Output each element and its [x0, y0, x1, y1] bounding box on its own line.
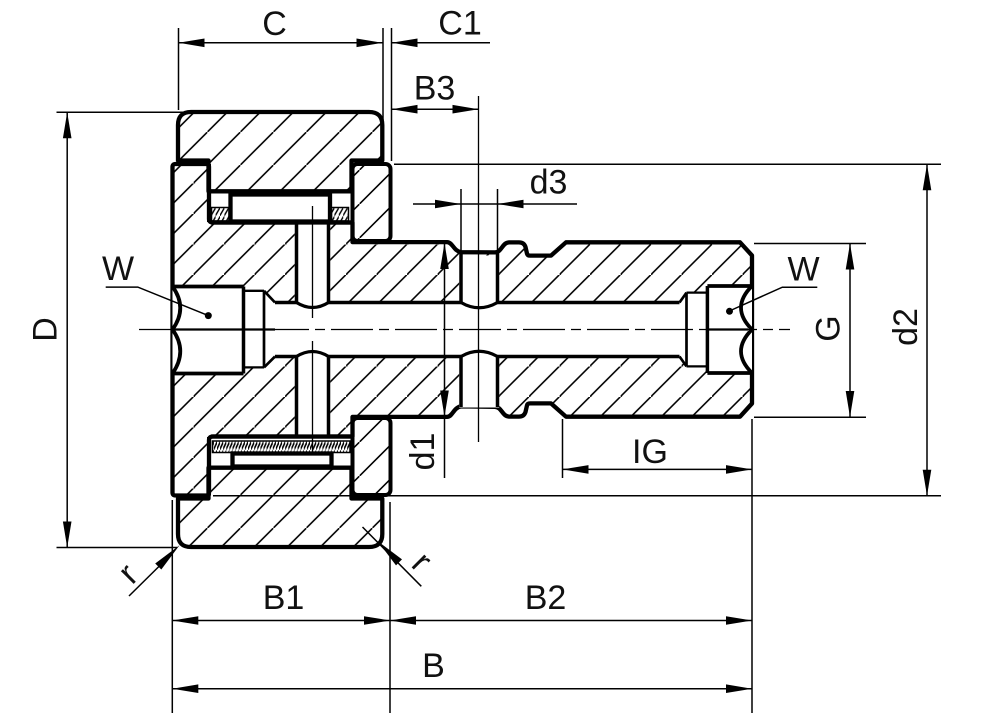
- W right callout: [731, 287, 818, 310]
- cage end block top-left (fine hatch): [212, 208, 230, 222]
- cage pocket bottom (white): [233, 454, 332, 467]
- hex socket left: hex mid edge: [173, 328, 276, 330]
- svg-text:d3: d3: [530, 164, 568, 202]
- svg-text:B: B: [422, 647, 445, 685]
- needle roller top (white): [231, 195, 331, 222]
- dimension C line: [179, 42, 383, 44]
- outer ring bottom section: [178, 468, 382, 547]
- bore bottom line segments: [275, 355, 680, 359]
- dimension D line: [66, 112, 68, 547]
- G arrows: [846, 244, 855, 270]
- dimension B1/B2 line: [172, 620, 752, 622]
- B2 arrows: [390, 616, 416, 625]
- svg-text:B2: B2: [525, 579, 567, 617]
- dimension d2 line: [926, 164, 928, 496]
- svg-text:B3: B3: [414, 70, 456, 108]
- D extension bottom: [57, 547, 178, 549]
- hole 2 walls: [461, 252, 498, 408]
- D extension top: [57, 111, 191, 113]
- dimension C1 line: [392, 42, 491, 44]
- d2 extension bottom: [213, 495, 941, 497]
- bore top line segments: [275, 301, 680, 305]
- svg-text:C1: C1: [438, 5, 481, 43]
- B2/B right extension: [751, 419, 753, 713]
- hole 1 drill break arcs: [297, 303, 329, 357]
- dimension B3 line: [392, 108, 479, 110]
- B1 extension left: [171, 500, 173, 713]
- side plate top: [353, 164, 391, 241]
- hex socket left: drill cone: [264, 291, 275, 368]
- d3 arrows (outside): [435, 200, 461, 209]
- hex socket left: bottom face: [242, 287, 246, 374]
- hole 2 drill break arcs: [461, 303, 498, 357]
- d1 arrows: [440, 243, 449, 269]
- r leader right: [363, 527, 422, 586]
- dimension IG line: [563, 468, 753, 470]
- B arrows: [172, 684, 198, 693]
- hole 1 centerline: [312, 206, 314, 452]
- r leader left: [129, 559, 167, 597]
- B3 arrows: [392, 105, 418, 114]
- outer ring top section: [178, 112, 382, 191]
- svg-text:d1: d1: [404, 433, 442, 471]
- svg-text:C: C: [262, 5, 287, 43]
- hex socket left: edges: [173, 287, 244, 374]
- d2 arrows: [923, 164, 932, 190]
- d2 extension top: [394, 163, 941, 165]
- needle strip bottom (fine hatch): [213, 441, 351, 453]
- hex socket right: drill cone: [680, 293, 687, 367]
- G extension top: [754, 243, 866, 245]
- C extension right: [382, 28, 384, 130]
- side plate bottom: [353, 418, 391, 495]
- hex socket right: pilot band: [687, 293, 708, 367]
- W left callout: [106, 287, 209, 316]
- hex socket left: pilot band: [244, 291, 265, 368]
- IG arrows: [563, 465, 589, 474]
- stud body (hatched section incl. flange and threaded shank): [173, 164, 753, 496]
- lubrication hole 2 (white cutout through stud, thread zone): [459, 256, 499, 304]
- flange right face line: [207, 164, 211, 496]
- lubrication hole 1 (white cutout through stud, bearing zone): [295, 224, 330, 304]
- hex socket right: hex mid edge: [707, 328, 748, 330]
- C extension left: [178, 28, 180, 110]
- dimension d3 line: [413, 203, 577, 205]
- hex socket left: entry chamfer arcs: [173, 287, 181, 374]
- dimension d1 line: [444, 243, 446, 478]
- cage end block top-right (fine hatch): [332, 208, 349, 222]
- C1 extension: [391, 28, 393, 161]
- B1 arrows: [172, 616, 198, 625]
- D arrows: [63, 112, 72, 138]
- C1 arrow: [392, 39, 418, 48]
- IG extension left: [562, 419, 564, 478]
- svg-text:G: G: [810, 315, 848, 341]
- svg-text:W: W: [787, 251, 819, 289]
- B1/B2 shared extension: [389, 502, 391, 713]
- d3 extension lines: [461, 189, 498, 251]
- hole 1 walls: [297, 225, 329, 436]
- centerline (horizontal axis): [139, 329, 790, 331]
- dimension B line: [172, 688, 752, 690]
- svg-text:W: W: [102, 250, 134, 288]
- hex socket right: bottom face: [706, 286, 710, 373]
- G extension bottom: [754, 416, 866, 418]
- stud raceway line bottom: [211, 434, 353, 438]
- central lubrication bore and hex sockets (white cutout): [173, 286, 753, 374]
- hole 2 centerline / B3 extension: [478, 96, 480, 442]
- hex socket right: edges: [707, 286, 750, 373]
- stud raceway line top: [211, 220, 353, 224]
- hex socket right: entry chamfer arcs: [741, 286, 752, 373]
- dimension G line: [849, 244, 851, 418]
- svg-text:IG: IG: [632, 433, 668, 471]
- svg-text:B1: B1: [263, 579, 305, 617]
- svg-text:d2: d2: [887, 308, 925, 346]
- svg-text:D: D: [27, 317, 65, 342]
- C arrows: [179, 39, 205, 48]
